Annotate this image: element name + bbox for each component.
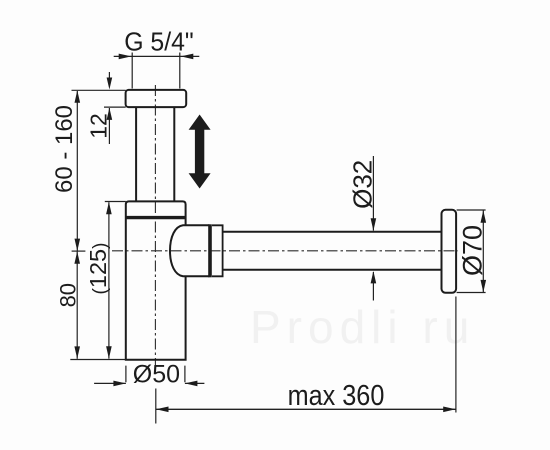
dim (125): extension lines bbox=[105, 201, 126, 203]
top nut flange bbox=[126, 90, 187, 107]
wire: vertical centerline of body bbox=[154, 85, 156, 365]
svg-text:Ø32: Ø32 bbox=[348, 160, 378, 209]
wire: horizontal centerline of outlet bbox=[112, 250, 458, 252]
dim O70: extension lines bbox=[457, 210, 486, 293]
svg-text:60 - 160: 60 - 160 bbox=[51, 105, 78, 193]
outlet nut bbox=[212, 225, 223, 276]
dim max 360: extension lines bbox=[155, 389, 157, 424]
dim G 5/4: extension lines bbox=[132, 53, 180, 89]
union nut seal line bbox=[126, 216, 186, 219]
svg-text:Ø70: Ø70 bbox=[458, 225, 488, 276]
outlet dome bbox=[170, 225, 209, 276]
svg-text:G 5/4": G 5/4" bbox=[124, 28, 194, 57]
outlet nut thick face bbox=[208, 224, 212, 277]
svg-text:Prodli ru: Prodli ru bbox=[250, 301, 475, 353]
dim 12: arrows bbox=[108, 72, 110, 80]
svg-text:12: 12 bbox=[85, 113, 111, 139]
svg-text:max 360: max 360 bbox=[288, 378, 385, 411]
wall flange bbox=[442, 210, 457, 293]
dim O50: extension ticks bbox=[126, 366, 185, 383]
outlet pipe bbox=[223, 231, 442, 233]
dim (125): dimension line bbox=[108, 202, 110, 358]
dim max 360: dimension line bbox=[156, 408, 456, 410]
dim 80: dimension line bbox=[76, 252, 78, 359]
adjustment arrow bbox=[189, 115, 211, 189]
svg-text:80: 80 bbox=[55, 283, 80, 307]
dim 60-160: dimension line bbox=[76, 91, 78, 251]
dim O32: leader lines bbox=[372, 156, 374, 231]
body cup with union nut bbox=[126, 201, 186, 359]
watermark bbox=[250, 301, 475, 353]
dim O70: dimension line bbox=[482, 211, 484, 293]
inlet pipe bbox=[135, 108, 137, 201]
svg-text:(125): (125) bbox=[85, 243, 111, 295]
dim O50: dimension line with outside arrows bbox=[94, 382, 204, 384]
dim G 5/4: arrowheads bbox=[119, 54, 132, 60]
svg-text:Ø50: Ø50 bbox=[133, 361, 180, 389]
dim 12: extension lines bbox=[72, 89, 126, 91]
dim G 5/4: dimension line bbox=[114, 55, 200, 57]
tick between 60-160 and 80 bbox=[72, 250, 86, 252]
